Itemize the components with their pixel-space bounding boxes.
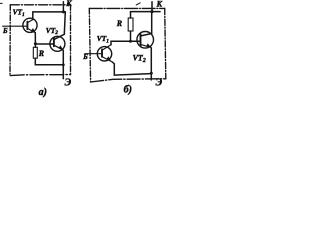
svg-text:Э: Э (156, 78, 163, 89)
svg-text:Э: Э (65, 78, 72, 89)
wire: R top lead from junction (circuit a) (34, 44, 36, 48)
junction dot at rail and K lead (circuit a) (62, 10, 65, 13)
wire: K terminal lead crossing box top (circuit a) (62, 2, 64, 12)
wire: base lead into VT2 (circuit a) (35, 43, 54, 45)
wire: VT2 collector from rail down (circuit b) (141, 12, 152, 36)
transistor VT1 (circuit a) (23, 18, 37, 33)
wire: base lead into VT1 (circuit b) (85, 53, 102, 55)
wire: collector top rail (circuit a) (33, 11, 66, 13)
svg-text:R: R (38, 49, 45, 58)
svg-text:К: К (65, 0, 72, 8)
wire: VT2 emitter down to bottom junction (circuit b) (150, 47, 153, 73)
wire: base lead into VT1 (circuit a) (3, 25, 27, 27)
wire: VT1 collector up then right to VT2 base (circuit b) (111, 41, 141, 45)
wire: VT1 emitter down and right along bottom rail (circuit b) (112, 62, 151, 75)
wire: R top lead to top rail (circuit b) (130, 12, 132, 18)
dashed enclosure box circuit a (10, 5, 71, 76)
wire: VT2 collector from rail down (circuit a) (54, 12, 65, 40)
wire: K terminal lead crossing box top (circuit b) (151, 2, 153, 12)
svg-text:б): б) (124, 84, 132, 95)
junction dot VT1 emitter / R / VT2 base (circuit a) (34, 42, 37, 45)
stray scan mark left edge (0, 2, 2, 4)
junction dot bottom rail / emitter / E lead (circuit b) (150, 72, 153, 75)
wire: R bottom lead to bottom rail (circuit a) (34, 58, 36, 64)
wire: VT2 emitter down to bottom rail (circuit a) (62, 50, 65, 65)
junction dot top rail / K lead / VT2 collector (circuit b) (150, 10, 153, 13)
wire: top rail (circuit b) (131, 11, 161, 13)
stray scan mark above circuit b box (136, 3, 140, 5)
transistor VT1 (circuit b) (97, 45, 112, 62)
transistor VT2 (circuit b) (137, 32, 154, 49)
svg-text:Б: Б (82, 53, 88, 61)
wire: VT1 emitter down to junction node (circuit a) (34, 33, 36, 44)
wire: E terminal lead crossing box bottom (circuit a) (62, 65, 64, 79)
junction dot R bottom lead on base wire (circuit b) (129, 40, 132, 43)
dashed enclosure box circuit b (89, 8, 166, 82)
wire: E terminal lead crossing box bottom (circuit b) (150, 73, 152, 80)
junction dot bottom rail / emitter / E lead (circuit a) (62, 63, 65, 66)
svg-text:а): а) (39, 87, 47, 98)
wire: bottom rail (circuit a) (35, 64, 63, 66)
resistor R (circuit a) (33, 47, 37, 58)
svg-text:R: R (116, 19, 123, 28)
resistor R (circuit b) (128, 18, 133, 31)
wire: VT1 collector up to top rail (circuit a) (32, 12, 34, 20)
wire: R bottom lead (circuit b) (130, 31, 132, 41)
transistor VT2 (circuit a) (50, 36, 65, 51)
svg-text:Б: Б (2, 27, 8, 35)
svg-text:К: К (156, 0, 163, 8)
